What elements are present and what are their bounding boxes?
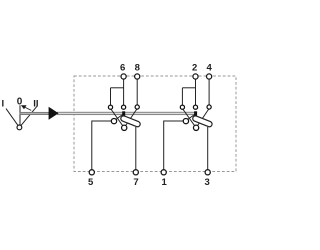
wire position-II lever: [19, 106, 36, 127]
dashed enclosure (switch body): [74, 76, 236, 172]
wire terminal3 riser: [207, 127, 209, 170]
pivot circle: [17, 125, 22, 130]
contact circle E2: [193, 125, 198, 130]
terminal 3: [205, 170, 210, 175]
wire diagonal C to E: [124, 109, 137, 128]
terminal 6: [121, 74, 126, 79]
wire branch to contact A2: [181, 88, 183, 105]
return arrow (II to 0): [21, 105, 31, 110]
wire diagonal A2 to E2: [182, 109, 196, 128]
svg-text:3: 3: [205, 177, 210, 188]
contact circle A2: [180, 105, 184, 109]
shaft (mechanical link): [58, 112, 196, 115]
contact circle E: [122, 125, 127, 130]
wire diagonal D to pivot: [114, 114, 123, 120]
svg-text:I: I: [1, 99, 4, 110]
bridge contact right (movable capsule): [192, 115, 213, 128]
wire terminal5 riser: [92, 121, 111, 170]
svg-text:1: 1: [162, 177, 168, 188]
wire branch terminal2: [182, 87, 195, 89]
wire diagonal A to E: [111, 109, 125, 128]
wire terminal7 riser: [135, 127, 137, 170]
terminal 7: [133, 170, 138, 175]
terminal 5: [89, 170, 94, 175]
terminal 2: [193, 74, 198, 79]
wire diagonal C2 to E2: [196, 109, 209, 128]
svg-text:2: 2: [192, 63, 197, 74]
shaft (mechanical link) left segment: [20, 112, 49, 114]
contact circle C2: [207, 105, 211, 109]
terminal 4: [207, 74, 212, 79]
contact circle A: [108, 105, 112, 109]
wire terminal8 to contact C: [136, 79, 138, 105]
bridge contact (movable capsule): [120, 115, 141, 128]
svg-text:8: 8: [135, 63, 140, 74]
wire branch terminal6: [111, 87, 124, 89]
contact circle C: [135, 105, 139, 109]
wire position-0 lever: [19, 105, 21, 127]
svg-text:5: 5: [88, 177, 94, 188]
wire diagonal D2 to pivot: [186, 114, 195, 120]
contact circle D2: [183, 118, 188, 123]
wire position-I lever: [6, 109, 19, 128]
wire terminal1 riser: [164, 121, 183, 170]
svg-text:4: 4: [207, 63, 213, 74]
wire terminal2 to contact B2: [195, 79, 197, 105]
contact circle B2: [193, 105, 197, 109]
terminal 8: [135, 74, 140, 79]
svg-text:7: 7: [133, 177, 138, 188]
terminal 1: [161, 170, 166, 175]
svg-text:6: 6: [120, 63, 125, 74]
wire branch to contact A: [110, 88, 112, 105]
pivot blob right unit: [194, 111, 197, 115]
wire terminal6 to contact B: [123, 79, 125, 105]
wire terminal4 to contact C2: [208, 79, 210, 105]
contact circle D: [111, 118, 116, 123]
pivot blob left unit: [122, 111, 125, 115]
contact circle B: [122, 105, 126, 109]
actuator arrow: [49, 107, 59, 120]
